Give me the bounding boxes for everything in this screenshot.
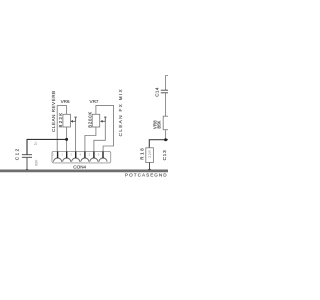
wire VR6 bottom lead down to CON4 pin2 <box>66 127 68 151</box>
wire VR6 top horizontal to left <box>57 104 66 106</box>
svg-text:B5K: B5K <box>157 120 162 128</box>
resistor R18 body <box>146 148 154 163</box>
svg-text:C13: C13 <box>162 150 167 161</box>
wire C12 bottom lead to bus <box>26 157 28 171</box>
junction dot C12 wire / VR6 bottom <box>65 138 68 141</box>
wire VR6 wiper down to CON4 pin3 <box>75 121 77 151</box>
potentiometer VR7 body <box>92 114 100 127</box>
svg-text:6: 6 <box>98 152 100 156</box>
svg-text:C12: C12 <box>15 147 20 160</box>
wire R18 bottom lead to bus <box>149 162 151 171</box>
svg-text:2: 2 <box>61 152 63 156</box>
wiper arrow VR6 <box>71 117 75 121</box>
svg-text:C14: C14 <box>155 87 160 97</box>
connector CON4 sockets (domes) <box>54 158 62 162</box>
wiper arrow VR7 <box>101 117 105 121</box>
junction dot R18 / bus <box>148 169 151 172</box>
svg-text:3: 3 <box>70 152 72 156</box>
potentiometer VR8 body (clipped at right edge) <box>163 116 171 130</box>
svg-text:POTCASEGND: POTCASEGND <box>125 172 168 177</box>
svg-text:B200K: B200K <box>87 111 92 128</box>
svg-text:VR7: VR7 <box>90 99 99 104</box>
svg-text:5: 5 <box>89 152 91 156</box>
svg-text:VR6: VR6 <box>61 99 70 104</box>
wire VR8 bottom lead <box>165 130 167 140</box>
svg-text:4: 4 <box>80 152 82 156</box>
wire VR6 top lead up <box>66 105 68 114</box>
capacitor C12 plates <box>22 154 32 156</box>
svg-text:CLEAN FX MIX: CLEAN FX MIX <box>118 88 123 136</box>
capacitor C14 plates <box>161 89 168 91</box>
svg-text:1: 1 <box>52 152 54 156</box>
wire C14 top entry from right edge <box>166 76 168 91</box>
svg-text:63V: 63V <box>34 159 38 166</box>
connector CON4 body <box>52 151 111 163</box>
svg-text:R18: R18 <box>140 147 145 160</box>
wire net POTCASEGND horizontal right <box>149 140 168 148</box>
svg-text:CON4: CON4 <box>73 164 86 169</box>
svg-text:1u: 1u <box>33 142 37 146</box>
connector CON4 pin stubs <box>57 151 59 158</box>
svg-text:B22K: B22K <box>58 111 63 127</box>
potentiometer VR6 body <box>63 114 71 127</box>
wire VR7 top lead <box>96 105 114 151</box>
wire VR7 wiper down to CON4 pin5 <box>94 121 105 151</box>
wire C14 bottom lead to VR8 <box>165 93 167 116</box>
wire ground bus 0V (full width) <box>0 170 168 173</box>
svg-text:CLEAN REVERB: CLEAN REVERB <box>51 90 56 132</box>
wire C12 top lead and horizontal to junction <box>27 139 67 154</box>
svg-text:22R: 22R <box>148 150 152 158</box>
junction dot C12 / bus <box>26 169 29 172</box>
wire VR7 bottom lead to CON4 pin4 <box>85 127 96 151</box>
wire pin1 vertical down to CON4 <box>56 105 58 151</box>
junction dot VR8 / net <box>164 138 167 141</box>
